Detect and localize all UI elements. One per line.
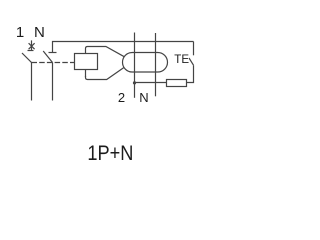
svg-text:N: N (34, 24, 45, 41)
svg-text:1: 1 (16, 24, 24, 41)
svg-text:1P+N: 1P+N (87, 141, 133, 165)
svg-text:N: N (139, 90, 148, 105)
svg-text:TE: TE (174, 54, 189, 66)
svg-text:2: 2 (118, 90, 125, 105)
